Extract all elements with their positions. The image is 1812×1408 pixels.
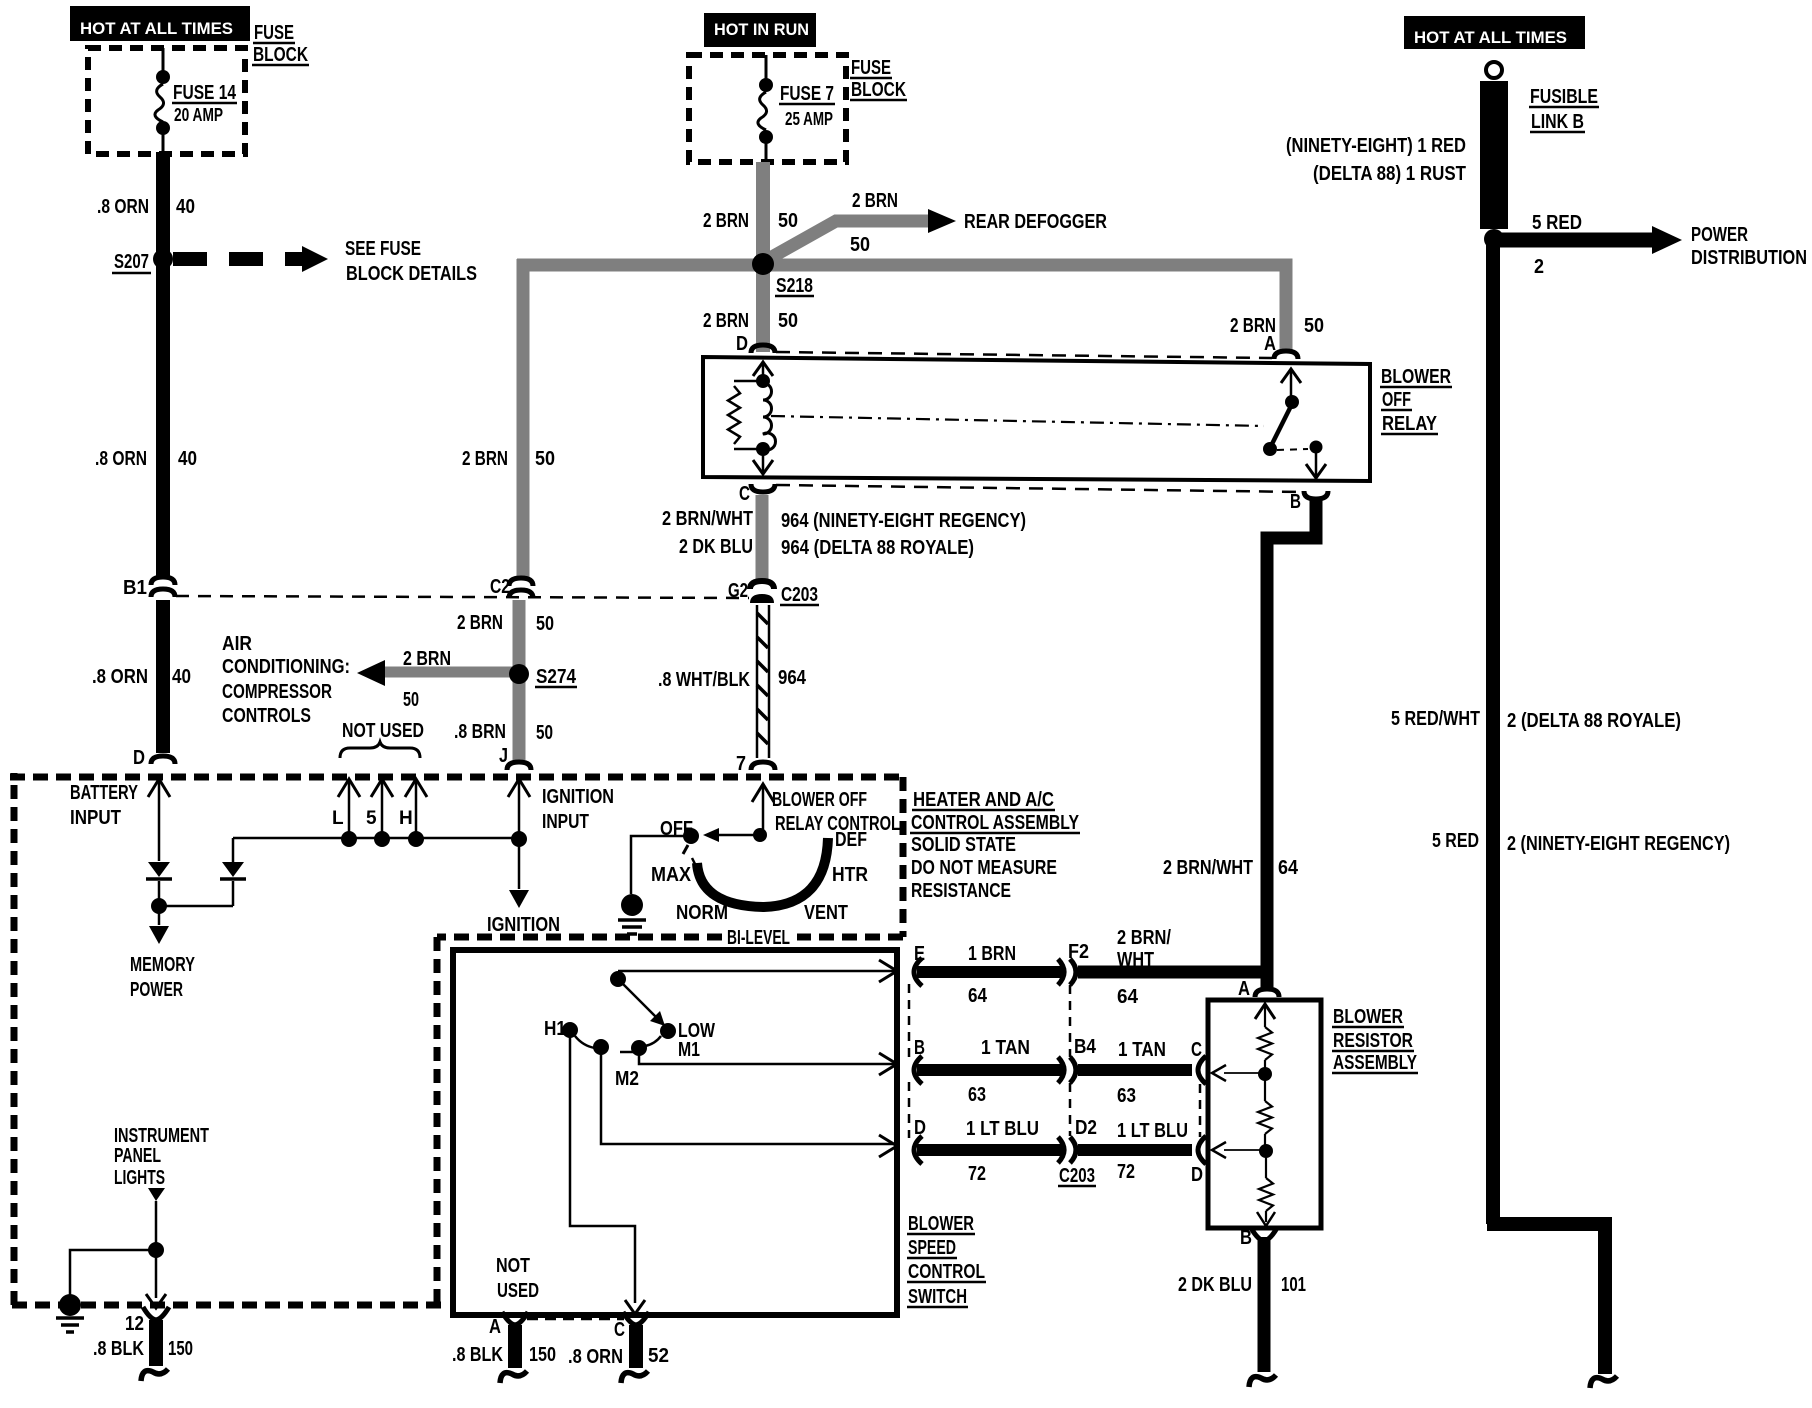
- svg-text:S207: S207: [114, 251, 149, 273]
- junction dot (memory power): [151, 898, 167, 914]
- wire: .8 BLK 150 (left exit): [149, 1320, 163, 1366]
- svg-text:IGNITION: IGNITION: [542, 786, 614, 808]
- svg-text:D2: D2: [1075, 1117, 1097, 1139]
- dashed connector line F2-B4-D2 (C203): [1069, 985, 1072, 1057]
- svg-text:B4: B4: [1074, 1036, 1097, 1058]
- wire: 1 TAN 63 B to B4: [917, 1064, 1063, 1076]
- svg-text:HTR: HTR: [832, 864, 868, 886]
- blower resistor assembly box: [1208, 1000, 1321, 1228]
- svg-text:FUSE 14: FUSE 14: [173, 82, 237, 104]
- svg-text:.8 ORN: .8 ORN: [568, 1346, 623, 1368]
- svg-text:2: 2: [1534, 256, 1544, 278]
- wire: pivot to E row: [618, 970, 897, 973]
- svg-text:REAR DEFOGGER: REAR DEFOGGER: [964, 211, 1107, 233]
- svg-text:A: A: [1238, 978, 1250, 1000]
- contact arc H1 to M2: [575, 1036, 595, 1048]
- svg-text:FUSIBLE: FUSIBLE: [1530, 86, 1598, 108]
- svg-text:964 (DELTA 88 ROYALE): 964 (DELTA 88 ROYALE): [781, 537, 974, 559]
- svg-text:2 (DELTA 88 ROYALE): 2 (DELTA 88 ROYALE): [1507, 710, 1681, 732]
- contact dots M2: [593, 1039, 609, 1055]
- link between M2 dots: [620, 1051, 634, 1054]
- junction dot (lights): [148, 1242, 164, 1258]
- svg-text:BLOCK DETAILS: BLOCK DETAILS: [346, 263, 477, 285]
- dashed connector line C-D (resistor): [1199, 1084, 1202, 1137]
- wire: .8 ORN 40 from fuse block to S207: [156, 152, 170, 576]
- svg-text:BLOWER: BLOWER: [1333, 1006, 1403, 1028]
- svg-text:150: 150: [168, 1338, 193, 1360]
- svg-text:63: 63: [1117, 1085, 1136, 1107]
- svg-text:C: C: [739, 483, 750, 505]
- svg-text:101: 101: [1281, 1274, 1306, 1296]
- junction dot on relay control line: [753, 828, 767, 842]
- svg-text:SPEED: SPEED: [908, 1237, 956, 1259]
- svg-text:LIGHTS: LIGHTS: [114, 1167, 165, 1189]
- dashed line B1-C2-G2: [176, 596, 749, 598]
- svg-text:C: C: [614, 1319, 625, 1341]
- wire: H1 down and to C exit: [570, 1030, 635, 1303]
- switch wiper pivot dot: [610, 971, 626, 987]
- svg-text:BLOCK: BLOCK: [851, 79, 906, 101]
- junction dot (to C): [1258, 1067, 1272, 1081]
- contact dot LOW/M1: [660, 1023, 676, 1039]
- relay coil feed arrow (from D): [753, 362, 773, 376]
- svg-text:50: 50: [1304, 315, 1324, 337]
- svg-text:150: 150: [529, 1344, 556, 1366]
- svg-text:C203: C203: [781, 584, 818, 606]
- svg-text:2 BRN: 2 BRN: [703, 310, 749, 332]
- power label: HOT AT ALL TIMES (right): [1404, 16, 1585, 49]
- brace over L 5 H: [340, 742, 420, 758]
- dashed link to right contact: [1277, 449, 1308, 450]
- relay resistor (parallel): [734, 380, 763, 383]
- svg-text:OFF: OFF: [1382, 389, 1411, 411]
- switch wiper arm (to LOW/M1): [618, 979, 668, 1029]
- svg-text:IGNITION: IGNITION: [487, 914, 560, 936]
- svg-text:5 RED: 5 RED: [1432, 830, 1479, 852]
- heater and A/C control assembly dashed box (L-shape): [10, 774, 903, 781]
- relay connector dashed line C-B: [776, 485, 1302, 492]
- svg-text:M2: M2: [615, 1068, 639, 1090]
- wire: 2 BRN to rear defogger (diagonal): [770, 221, 930, 258]
- wire: 1 LT BLU to resistor D: [1078, 1144, 1192, 1156]
- terminal arrow: battery input (D): [148, 779, 170, 797]
- svg-text:USED: USED: [497, 1280, 539, 1302]
- svg-text:H: H: [399, 808, 413, 829]
- wire: internal bus to L/5/H/J: [233, 837, 519, 840]
- arrow pointing left to OFF contact: [717, 834, 760, 837]
- switch blade: [1271, 404, 1292, 446]
- svg-text:BATTERY: BATTERY: [70, 782, 138, 804]
- wire: 1 BRN 64 E to F2: [917, 966, 1063, 978]
- ground symbol (bottom left): [56, 1316, 84, 1320]
- svg-text:POWER: POWER: [130, 979, 183, 1001]
- svg-text:5 RED: 5 RED: [1532, 212, 1582, 234]
- svg-text:7: 7: [736, 753, 746, 775]
- svg-text:A: A: [489, 1316, 501, 1338]
- wire: feed into fuse 14: [162, 48, 165, 74]
- wire from memory dot to diode 2: [159, 905, 233, 908]
- OFF contact dot: [683, 828, 699, 844]
- switch contact dot (left): [1263, 442, 1277, 456]
- svg-text:C203: C203: [1059, 1165, 1095, 1187]
- svg-text:C: C: [1191, 1039, 1202, 1061]
- svg-text:RESISTOR: RESISTOR: [1333, 1030, 1413, 1052]
- svg-text:SOLID STATE: SOLID STATE: [911, 834, 1016, 856]
- svg-text:52: 52: [648, 1345, 669, 1367]
- wire: 2 BRN from C2 down to S274 and J: [513, 600, 526, 760]
- svg-text:AIR: AIR: [222, 633, 252, 655]
- relay connector dashed line D-A: [776, 352, 1272, 358]
- svg-text:FUSE: FUSE: [851, 57, 891, 79]
- svg-text:CONTROLS: CONTROLS: [222, 705, 311, 727]
- terminal arrow 7 / blower off relay control: [752, 784, 774, 802]
- svg-text:964: 964: [778, 667, 807, 689]
- wire: 2 BRN 50 arrow to A/C compressor controls: [382, 667, 519, 678]
- wire from OFF contact to ground: [631, 836, 691, 894]
- wire from lights to dot: [155, 1201, 158, 1245]
- wire: 2 BRN/WHT from relay C down to C203: [756, 495, 769, 581]
- svg-text:1 BRN: 1 BRN: [968, 943, 1016, 965]
- power label: HOT IN RUN: [704, 13, 816, 47]
- svg-text:FUSE 7: FUSE 7: [780, 83, 834, 105]
- svg-text:RELAY: RELAY: [1382, 413, 1438, 435]
- instrument panel lights feed triangle: [148, 1188, 165, 1201]
- rotary switch wiper dashes (OFF to MAX): [683, 845, 688, 854]
- svg-text:2 BRN: 2 BRN: [462, 448, 508, 470]
- connector F2 (C203): [1058, 959, 1064, 985]
- svg-text:BLOCK: BLOCK: [253, 44, 308, 66]
- resistor 2: [1264, 1074, 1266, 1101]
- wire: feed into fuse 7: [765, 55, 768, 82]
- switch pivot dot: [1285, 395, 1299, 409]
- svg-text:40: 40: [172, 666, 191, 688]
- svg-text:BI-LEVEL: BI-LEVEL: [727, 927, 790, 949]
- svg-text:A: A: [1264, 333, 1276, 355]
- svg-text:50: 50: [850, 234, 870, 256]
- svg-text:964 (NINETY-EIGHT REGENCY): 964 (NINETY-EIGHT REGENCY): [781, 510, 1026, 532]
- wire: dashed arrow to fuse block details: [173, 252, 310, 266]
- resistor 3: [1265, 1151, 1267, 1178]
- svg-text:2 (NINETY-EIGHT REGENCY): 2 (NINETY-EIGHT REGENCY): [1507, 833, 1730, 855]
- pigtail (right wire end): [1590, 1376, 1617, 1388]
- svg-text:50: 50: [778, 210, 798, 232]
- svg-text:CONDITIONING:: CONDITIONING:: [222, 656, 350, 678]
- svg-text:63: 63: [968, 1084, 986, 1106]
- wire: M1 contact to B row: [639, 1048, 897, 1064]
- fuse block (middle, dashed box): [689, 55, 846, 162]
- svg-text:D: D: [736, 333, 748, 355]
- dashed connector line E-B-D: [908, 984, 911, 1058]
- wire: 5 RED 2 arrow to power distribution: [1494, 233, 1652, 248]
- svg-text:B: B: [1290, 491, 1301, 513]
- wire: 1 TAN to resistor C: [1078, 1064, 1192, 1076]
- svg-text:1 LT BLU: 1 LT BLU: [1117, 1120, 1188, 1142]
- wire: 2 BRN 50 left branch down to C2: [517, 259, 530, 577]
- svg-text:64: 64: [1278, 857, 1299, 879]
- pin line to C with arrow: [1224, 1072, 1265, 1074]
- connector at resistor C: [1198, 1056, 1206, 1084]
- fuse F14 symbol: [156, 70, 170, 84]
- wire: 2 BRN 50 horizontal from left branch to S218 and right corner down to relay A: [517, 265, 1286, 352]
- terminal arrow J / ignition input: [508, 779, 530, 797]
- svg-text:M1: M1: [678, 1039, 700, 1061]
- junction dot (coil top): [756, 374, 770, 388]
- wire: 2 BRN 50 from fuse 7 down to S218: [756, 162, 770, 263]
- svg-text:2 DK BLU: 2 DK BLU: [679, 536, 753, 558]
- svg-text:.8 ORN: .8 ORN: [97, 196, 149, 218]
- svg-text:50: 50: [778, 310, 798, 332]
- wire: 1 LT BLU 72 D to D2: [917, 1144, 1063, 1156]
- wire: M2 contact to D row: [601, 1047, 897, 1144]
- svg-text:D: D: [133, 747, 145, 769]
- svg-text:5: 5: [366, 808, 377, 829]
- junction dot (coil bottom): [756, 442, 770, 456]
- svg-text:.8 BRN: .8 BRN: [454, 721, 506, 743]
- svg-text:1 LT BLU: 1 LT BLU: [966, 1118, 1039, 1140]
- connector at resistor D: [1198, 1136, 1206, 1164]
- svg-text:BLOWER: BLOWER: [908, 1213, 974, 1235]
- svg-text:S218: S218: [776, 275, 813, 297]
- wire: jog right and down to pigtail: [1487, 1217, 1605, 1231]
- blower speed control switch box: [453, 950, 897, 1315]
- svg-text:2 BRN: 2 BRN: [703, 210, 749, 232]
- svg-text:2 BRN/: 2 BRN/: [1117, 927, 1171, 949]
- svg-text:(DELTA 88) 1 RUST: (DELTA 88) 1 RUST: [1313, 163, 1466, 185]
- svg-text:DISTRIBUTION: DISTRIBUTION: [1691, 247, 1807, 269]
- svg-text:2 BRN/WHT: 2 BRN/WHT: [662, 508, 753, 530]
- arrow down to terminal 12: [155, 1250, 158, 1298]
- power label: HOT AT ALL TIMES (left): [70, 6, 250, 41]
- switch contact dot (right): [1310, 441, 1323, 454]
- arc M2 to LOW: [645, 1036, 661, 1046]
- svg-text:HOT AT ALL TIMES: HOT AT ALL TIMES: [1414, 28, 1567, 47]
- svg-text:40: 40: [176, 196, 195, 218]
- svg-text:FUSE: FUSE: [254, 22, 294, 44]
- wire: ignition down arrow: [518, 839, 521, 889]
- svg-text:HOT AT ALL TIMES: HOT AT ALL TIMES: [80, 19, 233, 38]
- svg-text:PANEL: PANEL: [114, 1145, 161, 1167]
- svg-text:POWER: POWER: [1691, 224, 1748, 246]
- svg-text:INPUT: INPUT: [70, 807, 121, 829]
- svg-text:1 TAN: 1 TAN: [1118, 1039, 1166, 1061]
- svg-text:LINK B: LINK B: [1531, 111, 1584, 133]
- svg-text:INSTRUMENT: INSTRUMENT: [114, 1125, 209, 1147]
- ground symbol (heater assembly): [618, 918, 646, 922]
- splice S218: [752, 253, 774, 275]
- dashed link A-C: [527, 1318, 624, 1321]
- svg-text:D: D: [1191, 1164, 1203, 1186]
- diode 1 (battery to memory power): [148, 862, 170, 877]
- svg-text:HOT IN RUN: HOT IN RUN: [714, 20, 809, 39]
- svg-text:50: 50: [535, 448, 555, 470]
- wire: 2 DK BLU 101 exit: [1258, 1237, 1271, 1372]
- wire: 5 RED/WHT down right side: [1486, 240, 1500, 1224]
- blower off relay box: [703, 357, 1370, 481]
- fuse block (left, dashed box): [88, 48, 245, 154]
- svg-text:5 RED/WHT: 5 RED/WHT: [1391, 708, 1480, 730]
- wire to ground (left): [70, 1250, 156, 1296]
- wire: 2 BRN from S218 down to relay terminal D: [756, 265, 770, 352]
- svg-text:50: 50: [536, 613, 554, 635]
- svg-text:NORM: NORM: [676, 902, 728, 924]
- junction dot below fusible link: [1484, 229, 1504, 249]
- svg-text:72: 72: [968, 1163, 986, 1185]
- wire: .8 WHT/BLK 964 from C203 down to terminal 7: [757, 605, 770, 758]
- wire: 2 BRN/WHT 64 from relay B down (jog) to resistor A: [1267, 500, 1316, 990]
- svg-text:MEMORY: MEMORY: [130, 954, 195, 976]
- arrow to rear defogger: [928, 209, 956, 233]
- ground dot: [621, 894, 643, 916]
- svg-text:25 AMP: 25 AMP: [785, 109, 833, 129]
- svg-text:ASSEMBLY: ASSEMBLY: [1333, 1052, 1417, 1074]
- fusible link B (thick bar): [1480, 81, 1508, 229]
- svg-text:NOT USED: NOT USED: [342, 720, 424, 742]
- svg-text:CONTROL: CONTROL: [908, 1261, 985, 1283]
- svg-text:NOT: NOT: [496, 1255, 530, 1277]
- wire: 2 BRN/WHT from F2 to resistor A corner: [1078, 966, 1274, 979]
- arrow down to relay terminal B: [1315, 447, 1318, 477]
- svg-text:HEATER AND A/C: HEATER AND A/C: [913, 789, 1054, 811]
- svg-text:SEE FUSE: SEE FUSE: [345, 238, 421, 260]
- svg-text:.8 ORN: .8 ORN: [95, 448, 147, 470]
- svg-text:DEF: DEF: [835, 829, 867, 851]
- svg-text:20 AMP: 20 AMP: [174, 105, 223, 125]
- diode 2: [222, 862, 244, 877]
- relay switch: arm from A: [1281, 369, 1301, 383]
- svg-text:BLOWER OFF: BLOWER OFF: [772, 789, 867, 811]
- terminal arrows L 5 H: [338, 779, 360, 797]
- junction dot (to D): [1259, 1144, 1273, 1158]
- svg-text:INPUT: INPUT: [542, 811, 589, 833]
- resistor 1: [1258, 1027, 1272, 1060]
- svg-text:WHT: WHT: [1117, 949, 1154, 971]
- ground dot on box edge: [59, 1294, 81, 1316]
- splice S274: [509, 664, 529, 684]
- svg-text:COMPRESSOR: COMPRESSOR: [222, 681, 332, 703]
- svg-text:2 BRN: 2 BRN: [457, 612, 503, 634]
- svg-text:.8 WHT/BLK: .8 WHT/BLK: [658, 669, 750, 691]
- svg-text:.8 ORN: .8 ORN: [92, 666, 148, 688]
- svg-text:72: 72: [1117, 1161, 1135, 1183]
- svg-text:.8 BLK: .8 BLK: [93, 1338, 144, 1360]
- svg-text:MAX: MAX: [651, 864, 692, 886]
- svg-text:40: 40: [178, 448, 197, 470]
- svg-text:64: 64: [1117, 986, 1139, 1008]
- svg-text:RESISTANCE: RESISTANCE: [911, 880, 1011, 902]
- svg-text:.8 BLK: .8 BLK: [452, 1344, 503, 1366]
- svg-text:B1: B1: [123, 577, 147, 599]
- svg-text:L: L: [332, 808, 344, 829]
- svg-text:(NINETY-EIGHT) 1 RED: (NINETY-EIGHT) 1 RED: [1286, 135, 1466, 157]
- relay coil: [763, 383, 776, 450]
- svg-text:50: 50: [403, 689, 419, 711]
- svg-text:50: 50: [536, 722, 553, 744]
- wire: .8 ORN below B1: [156, 600, 170, 753]
- svg-text:S274: S274: [536, 666, 577, 688]
- svg-text:2 DK BLU: 2 DK BLU: [1178, 1274, 1252, 1296]
- splice S207: [153, 249, 173, 269]
- resistor chain: arrow from A: [1255, 1004, 1275, 1019]
- wire to memory power arrow: [158, 906, 161, 925]
- svg-text:BLOWER: BLOWER: [1381, 366, 1451, 388]
- rotary switch arc MAX-NORM-BI-LEVEL-VENT-HTR-DEF: [697, 838, 828, 907]
- arrow down to relay terminal C: [762, 449, 765, 473]
- relay internal dash-dot line: [771, 416, 1264, 426]
- pin line to D with arrow: [1224, 1149, 1266, 1151]
- svg-text:VENT: VENT: [804, 902, 848, 924]
- arrow down to B: [1265, 1211, 1267, 1222]
- svg-text:64: 64: [968, 985, 988, 1007]
- svg-text:SWITCH: SWITCH: [908, 1286, 967, 1308]
- svg-text:12: 12: [125, 1313, 144, 1335]
- svg-text:CONTROL ASSEMBLY: CONTROL ASSEMBLY: [911, 812, 1080, 834]
- svg-text:DO NOT MEASURE: DO NOT MEASURE: [911, 857, 1057, 879]
- fusible link B terminal ring: [1486, 62, 1502, 78]
- svg-text:2 BRN/WHT: 2 BRN/WHT: [1163, 857, 1253, 879]
- fuse F7 symbol: [759, 78, 773, 92]
- svg-text:1 TAN: 1 TAN: [981, 1037, 1030, 1059]
- connector B1 on left wire: [151, 577, 175, 585]
- svg-text:2 BRN: 2 BRN: [403, 648, 451, 670]
- svg-text:2 BRN: 2 BRN: [852, 190, 898, 212]
